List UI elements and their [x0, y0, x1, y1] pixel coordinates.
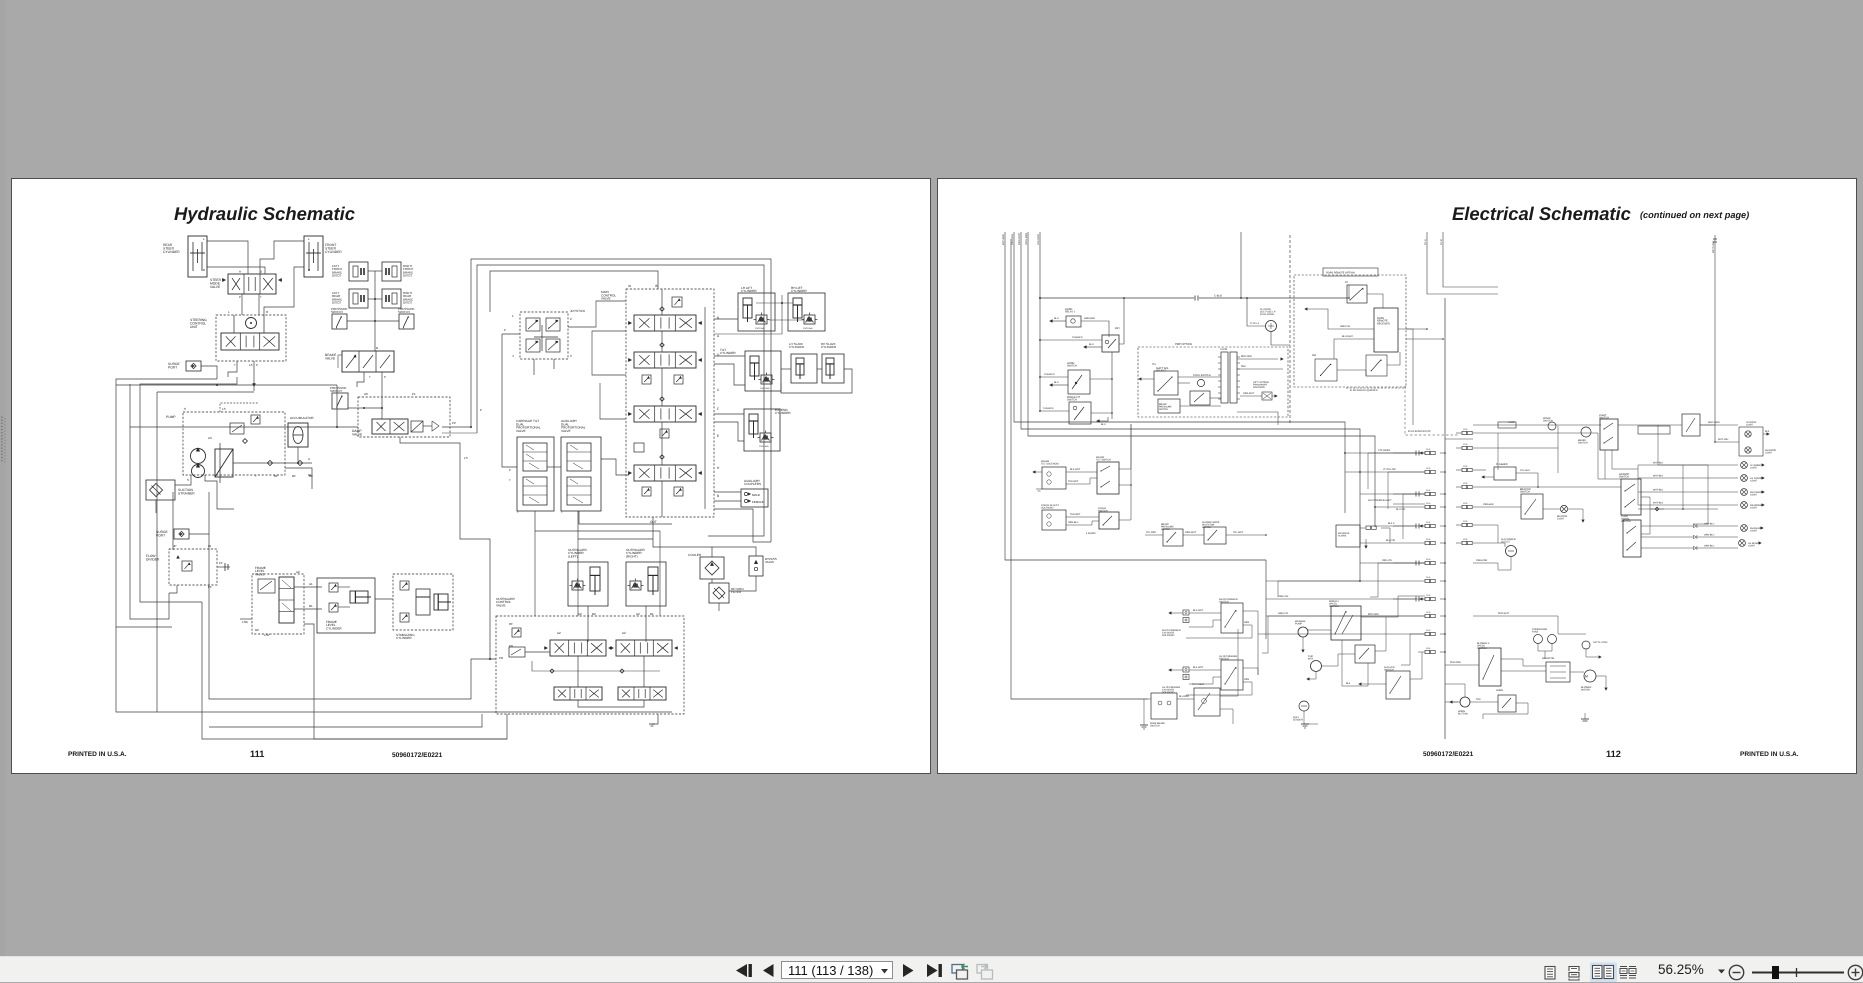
svg-text:CARRIAGE TILTDUALPROPORTIONALV: CARRIAGE TILTDUALPROPORTIONALVALVE [516, 419, 541, 433]
change mode selector switch [1204, 527, 1226, 544]
pressure switch (accumulator) [332, 393, 348, 409]
outrigger internal wires [525, 651, 550, 653]
RH lift cylinder [788, 293, 825, 331]
wire prop to outrigger riser [534, 531, 536, 616]
fuse F11 [1425, 632, 1430, 635]
svg-text:1: 1 [512, 314, 514, 318]
wire damp valve output long run right [442, 426, 471, 428]
mid collector riser [1265, 560, 1267, 639]
right feeds [1473, 432, 1598, 434]
svg-text:S: S [187, 478, 189, 482]
dimmer resistor [1638, 426, 1670, 434]
ground bus wire [1011, 239, 1148, 699]
pump swash plate [215, 449, 233, 477]
wire damp branch down [400, 437, 460, 461]
svg-text:BEACONSWITCH: BEACONSWITCH [1520, 488, 1531, 494]
LH slave cylinder [791, 354, 817, 383]
shift solenoid [1154, 371, 1178, 395]
fuse G5 [1462, 505, 1467, 508]
hazard switch [1621, 479, 1641, 515]
surge port (lower) [174, 529, 189, 539]
wire pump outlet B1 [285, 468, 312, 489]
brake trunk wire [374, 271, 376, 351]
mid collector lower run [1266, 580, 1360, 582]
svg-text:BEACONLIGHT: BEACONLIGHT [1557, 515, 1567, 521]
feed wires snaking left [1388, 472, 1425, 509]
svg-text:STEERINGCONTROLUNIT: STEERINGCONTROLUNIT [190, 318, 207, 329]
svg-text:FRAMETILT SOLENOID: FRAMETILT SOLENOID [1041, 460, 1059, 466]
fuse F9 [1425, 597, 1430, 600]
wire steer valve P to SCU [241, 294, 243, 315]
key switch collector [1111, 352, 1113, 419]
svg-text:4: 4 [512, 354, 514, 358]
svg-text:T: T [517, 510, 519, 514]
svg-text:15 A: 15 A [1426, 538, 1431, 541]
svg-text:REARSTEERCYLINDER: REARSTEERCYLINDER [163, 243, 180, 254]
right band verticals [1497, 433, 1499, 470]
last page button [927, 964, 938, 977]
power bus wire 1 [1005, 232, 1266, 560]
svg-text:FRONTSTEERCYLINDER: FRONTSTEERCYLINDER [325, 243, 342, 254]
svg-text:10 A: 10 A [1463, 502, 1468, 505]
svg-text:15 A: 15 A [1426, 467, 1431, 470]
svg-text:HORN: HORN [1496, 689, 1503, 692]
work lamp row 1 [1638, 464, 1738, 466]
svg-text:HORNSWITCH: HORNSWITCH [1067, 362, 1077, 368]
svg-text:RED-GRN: RED-GRN [1241, 355, 1252, 358]
svg-text:T: T [548, 326, 550, 330]
MCV spool 4 reliefs [642, 487, 651, 496]
svg-text:ROPS REMOTE OPTION: ROPS REMOTE OPTION [1326, 272, 1355, 275]
RH slave cylinder [822, 354, 844, 383]
svg-text:RED-GRN: RED-GRN [1368, 613, 1379, 616]
svg-text:111: 111 [250, 749, 264, 759]
svg-text:CNTR BAL: CNTR BAL [759, 445, 770, 448]
svg-text:A: A [239, 270, 241, 274]
main control valve [626, 289, 714, 517]
page number box [781, 961, 893, 979]
light switch drop wires [1604, 450, 1606, 479]
svg-text:LAMP: LAMP [1508, 421, 1515, 424]
horn relay K1 [1066, 316, 1081, 327]
svg-text:GRN: GRN [1244, 678, 1249, 681]
MCV spool 4 (aux) [634, 465, 696, 481]
wire tilt to slaves [781, 368, 791, 370]
svg-text:A0: A0 [364, 392, 368, 396]
svg-text:BLU: BLU [1101, 423, 1106, 426]
svg-text:BLOWER 3SPEEDSWITCH: BLOWER 3SPEEDSWITCH [1477, 642, 1490, 650]
next page button [903, 964, 914, 977]
svg-text:RR WORKLIGHT: RR WORKLIGHT [1750, 504, 1762, 510]
wiper motor switch [1355, 645, 1375, 663]
press-fit switch [1069, 402, 1091, 424]
continuous layout button [1569, 967, 1579, 972]
wire pump case drain [205, 475, 234, 509]
fuse F4 [1425, 505, 1430, 508]
lh outrigger switch [1221, 660, 1243, 690]
svg-text:AUXILIARYDUALPROPORTIONALVALVE: AUXILIARYDUALPROPORTIONALVALVE [561, 419, 586, 433]
svg-text:LT-YELLOW: LT-YELLOW [1383, 468, 1397, 471]
pump option wires [1178, 382, 1190, 384]
svg-text:PRINTED IN U.S.A.: PRINTED IN U.S.A. [1740, 751, 1799, 758]
wire hazard feed [1538, 473, 1621, 487]
long mid trunk B [337, 385, 358, 427]
MCV inlet relief [672, 297, 682, 307]
brake light switch [1521, 494, 1543, 519]
turn signal branch 1 [1641, 525, 1693, 527]
wire rear brake pair [368, 298, 382, 300]
lower right band [1445, 701, 1458, 703]
el door feed drop [1247, 298, 1265, 326]
horn button [1460, 697, 1470, 707]
svg-text:IGN-RED: IGN-RED [1037, 234, 1040, 245]
svg-text:S: S [184, 407, 186, 411]
sidebar splitter grip [0, 0, 10, 982]
headlight feed wire [1473, 424, 1601, 426]
svg-text:RETURNFILTER: RETURNFILTER [731, 587, 744, 594]
wire left loop to outrigger [116, 627, 157, 712]
svg-text:TEL: TEL [1152, 363, 1157, 366]
wire lift cylinders [714, 318, 738, 320]
mid right long wire [1473, 616, 1586, 634]
wire pressure switches [347, 320, 399, 322]
svg-text:BLK A: BLK A [1388, 522, 1395, 525]
svg-text:B2: B2 [255, 628, 259, 632]
LP rear light [1745, 447, 1751, 453]
svg-text:KEY: KEY [1115, 327, 1120, 330]
svg-text:LEFTFRONTBRAKEDISCS: LEFTFRONTBRAKEDISCS [332, 264, 342, 278]
wire frame level B1 [294, 608, 322, 610]
wire rh outrigger [1189, 612, 1221, 614]
svg-text:OUT: OUT [650, 520, 657, 524]
svg-text:GRN-BLU: GRN-BLU [1068, 521, 1079, 524]
svg-text:COOLER: COOLER [688, 553, 702, 557]
frame level solenoid connector [1042, 467, 1066, 489]
svg-text:GRN-RED: GRN-RED [1084, 317, 1095, 320]
flow divider [169, 549, 217, 585]
svg-text:CUPMTR: CUPMTR [1308, 655, 1313, 661]
svg-text:A2: A2 [636, 612, 640, 616]
fuse G2 [1462, 446, 1467, 449]
feed to outrigger rows [1368, 453, 1425, 489]
svg-text:HAZARDSWITCH: HAZARDSWITCH [1619, 473, 1629, 479]
aux hyd switch [1386, 671, 1410, 699]
svg-text:FLOWDIVIDER: FLOWDIVIDER [146, 554, 160, 562]
svg-text:AUXILIARYCOUPLERS: AUXILIARYCOUPLERS [744, 479, 761, 486]
svg-text:MAINCONTROLVALVE: MAINCONTROLVALVE [601, 290, 616, 301]
extend cylinder [744, 409, 780, 451]
svg-text:P: P [384, 375, 386, 379]
svg-text:T: T [561, 510, 563, 514]
svg-text:TAN-WHT: TAN-WHT [1070, 513, 1081, 516]
pressure switch (brakes left) [332, 314, 347, 329]
wire surge port to loop [201, 366, 217, 379]
svg-text:SURGEPORT: SURGEPORT [156, 530, 169, 538]
svg-text:BAT-RED: BAT-RED [1002, 234, 1005, 245]
first page button [736, 964, 747, 977]
rh outrigger switch [1221, 603, 1243, 633]
svg-text:AUX POWEROUTLET: AUX POWEROUTLET [1501, 538, 1516, 544]
wiper switch [1331, 606, 1361, 640]
riser to fuse bus [1240, 232, 1242, 298]
svg-text:GRN-BLU: GRN-BLU [1704, 534, 1715, 537]
svg-text:A2: A2 [557, 631, 561, 635]
svg-text:GRN-WHT: GRN-WHT [1243, 392, 1255, 395]
svg-text:WHT-BLK: WHT-BLK [1653, 475, 1664, 478]
svg-text:JOYSTICK: JOYSTICK [570, 309, 586, 313]
svg-text:PF: PF [208, 585, 212, 589]
svg-text:BLU: BLU [1089, 343, 1094, 346]
svg-text:15 A: 15 A [1426, 576, 1431, 579]
wire steer valve T to SCU [258, 294, 260, 315]
svg-text:TAN-RED: TAN-RED [1072, 336, 1083, 339]
svg-text:ORG-YEL: ORG-YEL [1382, 559, 1393, 562]
blower motor [1584, 670, 1596, 682]
svg-text:BLU-YEL: BLU-YEL [1386, 539, 1396, 542]
svg-text:2: 2 [570, 317, 572, 321]
return filter [709, 583, 729, 603]
svg-text:R: R [203, 268, 206, 272]
long mid trunk A [116, 384, 337, 386]
svg-text:GRN-YEL: GRN-YEL [1278, 612, 1289, 615]
svg-text:LIGHTSWITCH: LIGHTSWITCH [1599, 414, 1609, 420]
zoom slider track [1752, 972, 1844, 974]
hydraulic schematic page (page 111) [11, 178, 931, 774]
wire mid trunk horizontal [172, 492, 174, 550]
pump harness connector [1221, 352, 1228, 403]
cool switch [1197, 379, 1204, 386]
wire tank return long [209, 492, 314, 739]
tilt indicator switch [1194, 688, 1220, 716]
inline connectors on rows [1415, 451, 1417, 456]
svg-text:PB: PB [499, 656, 503, 660]
svg-text:B: B [717, 494, 719, 498]
svg-text:SUCTIONSTRAINER: SUCTIONSTRAINER [178, 488, 195, 496]
svg-text:ORG-PNK: ORG-PNK [1476, 559, 1488, 562]
svg-text:IF NO RADIO ROUTE: IF NO RADIO ROUTE [1408, 430, 1431, 433]
svg-text:LP-A: LP-A [1424, 239, 1427, 245]
single page layout button [1545, 967, 1555, 980]
svg-text:E: E [717, 434, 719, 438]
svg-text:13-PIN: 13-PIN [1220, 348, 1227, 351]
svg-text:PUR-WHT: PUR-WHT [1498, 612, 1509, 615]
work lamp row 2 [1638, 477, 1738, 479]
joystick [520, 312, 568, 359]
pump element 1 [191, 449, 206, 464]
rops remote option enclosure [1294, 275, 1406, 387]
rh outrigger connector [1183, 610, 1189, 615]
park brake wires [1148, 698, 1151, 700]
svg-text:PRESSURESWITCH: PRESSURESWITCH [331, 307, 348, 314]
fuse G7 [1462, 541, 1467, 544]
wire joystick P [502, 333, 520, 335]
svg-text:10 A: 10 A [1463, 520, 1468, 523]
zoom dropdown caret [1718, 970, 1725, 974]
power bus wire 5 [1039, 232, 1041, 411]
outrigger lower spool left [554, 687, 602, 700]
wire accumulator drop [297, 447, 299, 463]
wire rear cylinder L to valve A [207, 241, 248, 274]
backbone feeds to fuse rows [1345, 452, 1425, 454]
zoom out button [1729, 965, 1743, 979]
svg-text:15 A: 15 A [1426, 629, 1431, 632]
turn signal switch [1623, 520, 1641, 557]
svg-text:LH REARLIGHT: LH REARLIGHT [1748, 542, 1759, 548]
svg-text:BLU: BLU [1054, 317, 1059, 320]
svg-text:P: P [239, 295, 241, 299]
MCV spool 1 (lift) [634, 315, 696, 331]
collector riser left [1130, 424, 1132, 520]
svg-text:PUMP: PUMP [166, 415, 176, 419]
svg-text:EXTENDCYLINDER: EXTENDCYLINDER [775, 408, 791, 415]
svg-text:LSB: LSB [242, 620, 248, 624]
outrigger bus tie [1257, 618, 1259, 675]
svg-text:LH SLAVECYLINDER: LH SLAVECYLINDER [789, 342, 805, 349]
fuse G4 [1462, 485, 1467, 488]
outrigger relief [512, 628, 521, 637]
wire outrigger cylinders down [587, 606, 589, 642]
svg-text:R: R [308, 268, 311, 272]
fuse G1 [1462, 431, 1467, 434]
svg-text:BLU: BLU [1054, 381, 1059, 384]
wire outrigger tank [652, 714, 658, 724]
svg-text:3: 3 [570, 354, 572, 358]
sidebar splitter shading [0, 0, 5, 956]
MCV spool 3 relief [660, 429, 669, 438]
wire brake valve P down to damp cluster [381, 372, 383, 392]
wire frame level A1 [294, 586, 322, 588]
rops switch A [1315, 359, 1337, 381]
svg-text:50960172/E0221: 50960172/E0221 [392, 752, 443, 759]
main ignition feed wire [1040, 297, 1194, 299]
suction strainer [146, 480, 175, 500]
svg-text:A3: A3 [208, 436, 212, 440]
wire damp valve input drop [381, 392, 383, 419]
svg-text:P2: P2 [452, 421, 456, 425]
svg-text:RH OUTRIGGERCYLINDERSOLENOID: RH OUTRIGGERCYLINDERSOLENOID [1162, 629, 1181, 637]
surge port (upper) [186, 361, 201, 371]
svg-text:112: 112 [1606, 749, 1621, 759]
svg-text:A1: A1 [309, 582, 313, 586]
inline connector on feed [1194, 296, 1196, 301]
lh outrigger connector [1183, 667, 1189, 672]
electrical schematic page (page 112) [937, 178, 1857, 774]
wiper feed [1308, 629, 1331, 631]
wire flow divider tank [169, 585, 177, 593]
svg-text:STEER SELECTSOLENOID: STEER SELECTSOLENOID [1041, 504, 1059, 510]
wire roof lamp feed [1715, 441, 1739, 443]
svg-text:15 A: 15 A [1426, 647, 1431, 650]
zoom slider midpoint tick [1796, 968, 1798, 977]
wire strainer tank [155, 500, 157, 513]
svg-text:10 A: 10 A [1463, 465, 1468, 468]
svg-text:P: P [509, 468, 511, 472]
condenser fans [1534, 635, 1543, 644]
wire light bus right [1658, 425, 1708, 465]
turn signal branch 3 [1641, 547, 1693, 549]
svg-text:15 A: 15 A [1426, 489, 1431, 492]
svg-text:F: F [717, 407, 719, 411]
lower feed runs [1370, 563, 1425, 597]
svg-text:SW: SW [1312, 354, 1317, 357]
svg-text:ACCUMULATOR: ACCUMULATOR [290, 416, 314, 420]
svg-text:PRESS-FITSWITCH: PRESS-FITSWITCH [1067, 396, 1081, 402]
svg-text:SHIFT SOLSELECT: SHIFT SOLSELECT [1156, 367, 1169, 373]
steer select solenoid connector [1042, 510, 1066, 530]
svg-text:GRN: GRN [1244, 621, 1249, 624]
svg-text:BLU-WHT: BLU-WHT [1342, 335, 1353, 338]
outrigger lower spool right [618, 687, 666, 700]
fuse F6 [1425, 541, 1430, 544]
rops relay [1347, 285, 1367, 303]
svg-text:PRESSURESWITCH: PRESSURESWITCH [330, 386, 347, 393]
hazard-turn tie [1641, 497, 1650, 534]
svg-text:PRESSURESWITCH: PRESSURESWITCH [398, 307, 415, 314]
stabilizing cylinder [393, 574, 453, 630]
svg-text:P1: P1 [412, 392, 416, 396]
svg-text:TAN-RED: TAN-RED [1043, 407, 1054, 410]
svg-text:A2: A2 [578, 612, 582, 616]
svg-text:RIGHTFRONTBRAKEDISCS: RIGHTFRONTBRAKEDISCS [403, 264, 413, 278]
svg-text:10 A: 10 A [1463, 482, 1468, 485]
svg-text:Hydraulic Schematic: Hydraulic Schematic [174, 203, 355, 224]
svg-text:15 A: 15 A [1426, 502, 1431, 505]
svg-text:10 A: 10 A [1463, 443, 1468, 446]
wire flow divider EF [217, 566, 230, 568]
svg-text:M: M [1585, 675, 1588, 679]
svg-text:LS: LS [464, 456, 468, 460]
dashed option boundary [1289, 235, 1291, 425]
wire light out [1618, 424, 1682, 426]
zoom percentage [1658, 962, 1704, 977]
rear steer cylinder [188, 236, 207, 277]
zoom in button [1848, 965, 1862, 979]
wire mid return riser [577, 539, 579, 616]
fuse F1 [1425, 451, 1430, 454]
svg-text:RIGHTREARBRAKEDISCS: RIGHTREARBRAKEDISCS [403, 291, 413, 305]
svg-text:C: C [717, 388, 720, 392]
svg-text:WORKSWITCH: WORKSWITCH [1543, 417, 1553, 423]
svg-text:50960172/E0221: 50960172/E0221 [1423, 751, 1474, 758]
svg-text:T: T [234, 363, 236, 367]
svg-text:EF: EF [219, 561, 223, 565]
work lights switch [1548, 422, 1556, 430]
svg-text:RESISTOR: RESISTOR [1542, 657, 1554, 660]
power bus wire 2 [1014, 232, 1345, 513]
svg-text:SURGEPORT: SURGEPORT [168, 362, 181, 370]
svg-text:LSP: LSP [264, 633, 270, 637]
wire stabilizer link [375, 598, 393, 600]
brake pressure switch (mid) [1163, 529, 1183, 546]
left front brake discs [349, 262, 368, 281]
wire MCV OUT line [578, 511, 653, 539]
svg-text:LIFT / EXTENDTRANSPORTSOLENOID: LIFT / EXTENDTRANSPORTSOLENOID [1253, 381, 1269, 389]
svg-text:BLU-RED: BLU-RED [1179, 695, 1189, 698]
svg-text:C-BUS: C-BUS [1214, 295, 1222, 298]
svg-text:RH ROOFLIGHT: RH ROOFLIGHT [1765, 449, 1777, 455]
wire outrigger feed [314, 659, 496, 699]
no-radio dashed route [1405, 386, 1458, 435]
wire rear cylinder R to valve B [207, 267, 265, 274]
rops receiver [1374, 308, 1398, 352]
wire proportional valve tie [547, 466, 561, 468]
svg-text:TAN-RED: TAN-RED [1044, 373, 1055, 376]
svg-text:FEMALE: FEMALE [752, 500, 764, 504]
wire cooler circuit [712, 547, 756, 557]
MCV internal gallery [704, 307, 706, 509]
fuse F3 [1425, 492, 1430, 495]
steering control unit [216, 315, 286, 361]
